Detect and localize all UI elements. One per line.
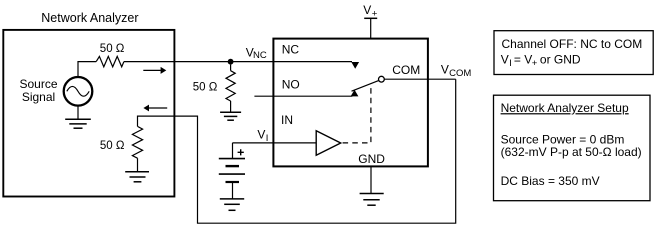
wire: R1 to NC pin (through node VNC) <box>124 61 274 63</box>
svg-text:50 Ω: 50 Ω <box>193 82 218 94</box>
label: Source Signal <box>19 77 57 104</box>
value label: 50 Ohm (R2) <box>193 82 218 94</box>
svg-text:NC: NC <box>253 50 267 61</box>
resistor R3 50 Ohm (receiver termination, vertical) <box>132 126 142 171</box>
supply V+ (power bar symbol) <box>364 18 377 38</box>
svg-text:(632-mV P-p at 50-Ω load): (632-mV P-p at 50-Ω load) <box>501 145 642 159</box>
resistor R1 50 Ohm (series, horizontal) <box>96 56 124 66</box>
switch S1 pole contact (open circle at COM) <box>379 76 385 82</box>
text: Source Power <box>501 132 642 159</box>
svg-text:Network Analyzer: Network Analyzer <box>41 11 138 25</box>
label: VNC <box>246 46 267 61</box>
svg-text:I: I <box>266 133 269 144</box>
svg-text:Channel OFF: NC to COM: Channel OFF: NC to COM <box>502 37 643 51</box>
value label: 50 Ohm (R1) <box>100 43 125 55</box>
svg-text:or GND: or GND <box>540 53 581 67</box>
svg-text:50 Ω: 50 Ω <box>100 140 125 152</box>
svg-text:Source: Source <box>19 77 57 91</box>
label: Network Analyzer <box>41 11 138 25</box>
node VNC (junction dot) <box>228 59 234 65</box>
wire: VI to IN buffer input <box>232 142 316 144</box>
svg-text:V: V <box>257 128 265 142</box>
battery B1 (VI bias source) <box>219 143 245 199</box>
source V1 (Source Signal sine generator) <box>64 77 93 106</box>
annotation box: network analyzer setup <box>494 95 651 201</box>
op-amp/driver buffer U1A (triangle) <box>316 131 341 155</box>
arrow: return signal direction left (into R3) <box>143 105 167 112</box>
svg-text:V: V <box>363 3 371 17</box>
dashed control line (driver to switch) <box>343 87 371 143</box>
pin label: NO <box>282 77 300 91</box>
resistor R2 50 Ohm (VNC termination, vertical) <box>226 65 235 113</box>
svg-text:DC Bias = 350 mV: DC Bias = 350 mV <box>501 174 600 188</box>
label: VCOM <box>441 62 471 79</box>
svg-text:I: I <box>509 58 512 69</box>
ground (below battery B1) <box>220 199 244 210</box>
ground (below source V1) <box>65 106 91 129</box>
svg-text:NO: NO <box>282 77 300 91</box>
svg-text:Network Analyzer Setup: Network Analyzer Setup <box>501 101 629 115</box>
ground (GND pin) <box>360 194 384 206</box>
svg-text:+: + <box>372 8 378 19</box>
label: + (battery polarity) <box>238 149 244 155</box>
label: V+ <box>363 3 378 19</box>
label: VI <box>257 128 268 144</box>
svg-text:COM: COM <box>449 68 471 79</box>
pin label: IN <box>281 113 293 127</box>
svg-text:IN: IN <box>281 113 293 127</box>
switch S1 lever (NO to COM, open position) <box>352 81 379 92</box>
svg-text:= V: = V <box>514 53 532 67</box>
wire: NC pin stub inside box <box>273 61 352 63</box>
ground (below R2) <box>220 112 241 120</box>
svg-text:NC: NC <box>282 43 300 57</box>
network analyzer enclosure box <box>3 30 174 197</box>
value label: 50 Ohm (R3) <box>100 140 125 152</box>
svg-text:+: + <box>532 58 538 69</box>
svg-text:50 Ω: 50 Ω <box>100 43 125 55</box>
wire: GND pin to ground <box>370 166 372 193</box>
pin label: NC <box>282 43 300 57</box>
text: DC Bias <box>501 174 600 188</box>
text: Network Analyzer Setup (underlined) <box>501 101 629 115</box>
arrow: NC throw contact (points down) <box>351 62 359 69</box>
wire: NO pin stub (open) <box>254 95 352 97</box>
pin label: GND <box>358 152 385 166</box>
pin label: COM <box>392 63 420 77</box>
arrow: signal direction right (into NC) <box>143 67 166 74</box>
wire: VCOM return loop (right side down, bottom, up to R3) <box>138 79 456 223</box>
wire: source top to resistor R1 <box>78 62 96 78</box>
svg-text:GND: GND <box>358 152 385 166</box>
wire: COM to VCOM output <box>384 78 455 80</box>
text: Channel OFF note <box>501 37 642 69</box>
arrow: NO throw contact (points up) <box>351 90 359 97</box>
svg-text:COM: COM <box>392 63 420 77</box>
switch IC box U1 <box>273 39 428 167</box>
annotation box: channel state <box>494 31 653 75</box>
ground (below R3) <box>125 172 149 182</box>
svg-text:Signal: Signal <box>22 90 55 104</box>
svg-text:V: V <box>501 53 509 67</box>
svg-text:V: V <box>441 62 449 76</box>
